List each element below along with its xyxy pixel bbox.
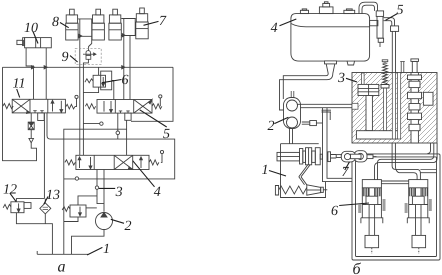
svg-text:8: 8 [52, 15, 59, 30]
svg-text:10: 10 [24, 21, 38, 36]
svg-text:13: 13 [46, 188, 60, 203]
svg-text:4: 4 [154, 185, 161, 200]
svg-text:3: 3 [337, 71, 345, 86]
svg-text:4: 4 [271, 21, 278, 36]
svg-text:5: 5 [397, 3, 404, 18]
svg-text:11: 11 [13, 77, 26, 92]
svg-text:1: 1 [262, 163, 269, 178]
svg-text:1: 1 [103, 242, 110, 257]
svg-text:2: 2 [268, 119, 275, 134]
svg-text:а: а [58, 259, 66, 275]
svg-text:9: 9 [62, 50, 69, 65]
svg-text:3: 3 [115, 185, 123, 200]
svg-text:6: 6 [122, 73, 129, 88]
svg-text:7: 7 [342, 165, 350, 180]
svg-text:12: 12 [3, 183, 17, 198]
svg-text:7: 7 [159, 14, 167, 29]
svg-text:б: б [353, 261, 362, 275]
svg-text:5: 5 [163, 127, 170, 142]
svg-text:2: 2 [125, 219, 132, 234]
svg-text:6: 6 [331, 204, 338, 219]
